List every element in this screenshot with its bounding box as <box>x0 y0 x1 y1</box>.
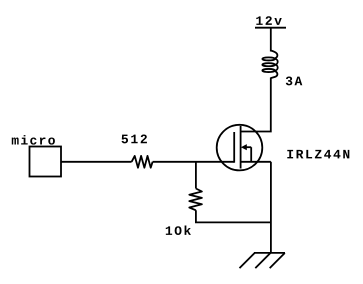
label 512 <box>122 135 147 144</box>
wire 10k to source <box>196 210 271 222</box>
inductor L1 <box>262 51 277 79</box>
wire rail to inductor <box>270 28 272 52</box>
label micro <box>12 135 55 145</box>
micro box <box>30 147 62 177</box>
wire source to ground <box>270 162 272 252</box>
transistor Q1 IRLZ44N <box>217 125 271 171</box>
wire resistor to gate <box>153 161 235 163</box>
resistor R1 512 <box>132 156 153 168</box>
label 3A <box>286 77 303 86</box>
label IRLZ44N <box>287 150 349 159</box>
resistor R2 10k <box>189 189 202 211</box>
wire micro to resistor <box>61 161 132 163</box>
wire junction to 10k <box>195 162 197 189</box>
label 12v <box>256 16 281 25</box>
power rail 12v <box>255 27 286 29</box>
ground <box>240 253 286 268</box>
label 10k <box>166 225 191 235</box>
wire inductor to drain <box>241 78 271 132</box>
